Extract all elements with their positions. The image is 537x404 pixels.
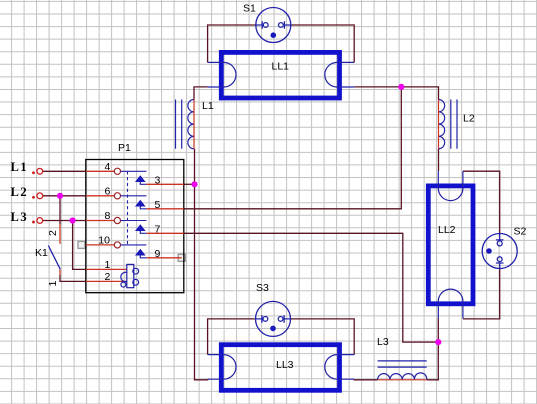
svg-text:L1: L1: [202, 100, 214, 112]
L3 coil: [378, 361, 427, 380]
svg-text:2: 2: [47, 230, 59, 236]
svg-text:5: 5: [155, 199, 161, 211]
L2 chord pin: [438, 100, 440, 149]
starter S1 body: [256, 8, 291, 43]
svg-text:L3: L3: [11, 210, 29, 224]
svg-text:S2: S2: [514, 226, 527, 238]
svg-text:L1: L1: [11, 160, 29, 174]
wire L1 terminal to P1 pin4: [43, 170, 86, 172]
wire junction B down to P1 pin5: [184, 87, 401, 209]
svg-text:LL2: LL2: [438, 224, 456, 236]
node L3/pin1 junction: [70, 217, 76, 223]
svg-text:3: 3: [155, 175, 161, 187]
svg-text:LL3: LL3: [276, 359, 294, 371]
K1 blade: [48, 246, 60, 270]
wire S1 left loop: [208, 25, 256, 62]
node B LL1/L2/pin5 junction: [398, 84, 404, 90]
wire K1 to P1 pin2: [60, 275, 86, 281]
svg-text:1: 1: [105, 259, 111, 271]
P1 pin 6: [86, 185, 147, 199]
wire P1 pin10 stub: [82, 244, 86, 246]
svg-text:L3: L3: [377, 336, 389, 348]
P1 box: [86, 160, 184, 293]
LL2 top filament: [438, 171, 463, 200]
P1 pin 1: [86, 259, 127, 271]
LL3 left filament: [208, 355, 236, 380]
svg-text:LL1: LL1: [272, 61, 290, 73]
wire junction C to P1 pin7: [184, 233, 438, 342]
terminal pin L3: [33, 218, 43, 224]
P1 pin 8: [86, 210, 147, 224]
P1 pin 2: [86, 271, 127, 283]
wire L3 branch down to P1 pin1: [73, 221, 86, 270]
P1 pin 9 arrow: [136, 248, 182, 260]
P1 pin 10: [86, 234, 147, 248]
LL3 box: [221, 345, 339, 391]
wire S3 right loop: [290, 319, 355, 355]
L1 chord pin: [193, 100, 195, 149]
LL2 bottom filament: [438, 289, 463, 318]
P1 pin 3 arrow: [136, 175, 184, 187]
node A pin3/L1 junction: [191, 181, 197, 187]
svg-text:6: 6: [105, 185, 111, 197]
K1 pin 2 (top): [59, 224, 61, 244]
wire L3 left to LL3 bottom-right pin: [354, 378, 377, 381]
svg-text:8: 8: [105, 210, 111, 222]
svg-text:2: 2: [105, 271, 111, 283]
wire L2 terminal to P1 pin6: [43, 195, 86, 197]
open end at P1 pin9: [178, 254, 185, 261]
LL1 left filament: [208, 62, 236, 87]
wire junction C down to L3 right: [427, 342, 439, 380]
P1 pin 5 arrow: [136, 199, 184, 211]
svg-text:4: 4: [105, 161, 111, 173]
node C LL2/pin7/L3 junction: [435, 339, 441, 345]
P1 relay coil symbol: [121, 264, 139, 287]
starter S2 body: [482, 234, 517, 269]
wire P1 pin3 to junction A: [184, 183, 195, 185]
svg-text:7: 7: [155, 224, 161, 236]
svg-text:10: 10: [98, 234, 110, 246]
wire LL1 bottom-left pin to L1 top: [194, 87, 208, 100]
wire S3 left loop: [208, 319, 255, 355]
wire L2 bottom to LL2 top-left pin: [438, 149, 440, 172]
wire S2 bottom to LL2 bottom-right pin: [463, 269, 500, 319]
open end at P1 pin10: [78, 241, 85, 248]
node L2/K1 junction: [57, 193, 63, 199]
LL1 right filament: [325, 62, 354, 87]
L1 coil: [176, 100, 195, 149]
svg-text:L2: L2: [11, 185, 29, 199]
wire LL1 bottom-right pin to junction B to L2 top: [354, 87, 438, 100]
svg-text:L2: L2: [463, 113, 475, 125]
P1 pin 7 arrow: [136, 224, 184, 236]
P1 dashed bus: [127, 171, 129, 245]
wire LL2 bottom-left pin to junction C: [437, 319, 439, 343]
svg-text:9: 9: [155, 248, 161, 260]
P1 pin 4: [86, 161, 147, 175]
LL2 box: [428, 186, 473, 304]
LL3 right filament: [325, 355, 354, 380]
terminal pin L2: [33, 193, 43, 199]
terminal pin L1: [33, 168, 43, 174]
svg-text:1: 1: [47, 281, 59, 287]
wire junction A vertical to LL3 bottom-left pin: [195, 149, 208, 380]
starter S3 body: [256, 301, 291, 336]
LL1 box: [221, 52, 339, 98]
svg-text:S3: S3: [256, 282, 269, 294]
K1 pin 1 (bottom): [59, 270, 61, 276]
wire S1 right loop: [291, 25, 355, 62]
wire L2 branch down to K1: [59, 196, 61, 224]
wire L3 terminal to P1 pin8: [43, 220, 86, 222]
svg-text:P1: P1: [118, 142, 131, 154]
L3 chord pin: [378, 379, 427, 381]
wire LL2 top-right pin to S2 top: [463, 171, 500, 233]
svg-text:K1: K1: [35, 247, 48, 259]
L2 coil: [439, 100, 458, 149]
svg-text:S1: S1: [243, 3, 256, 15]
